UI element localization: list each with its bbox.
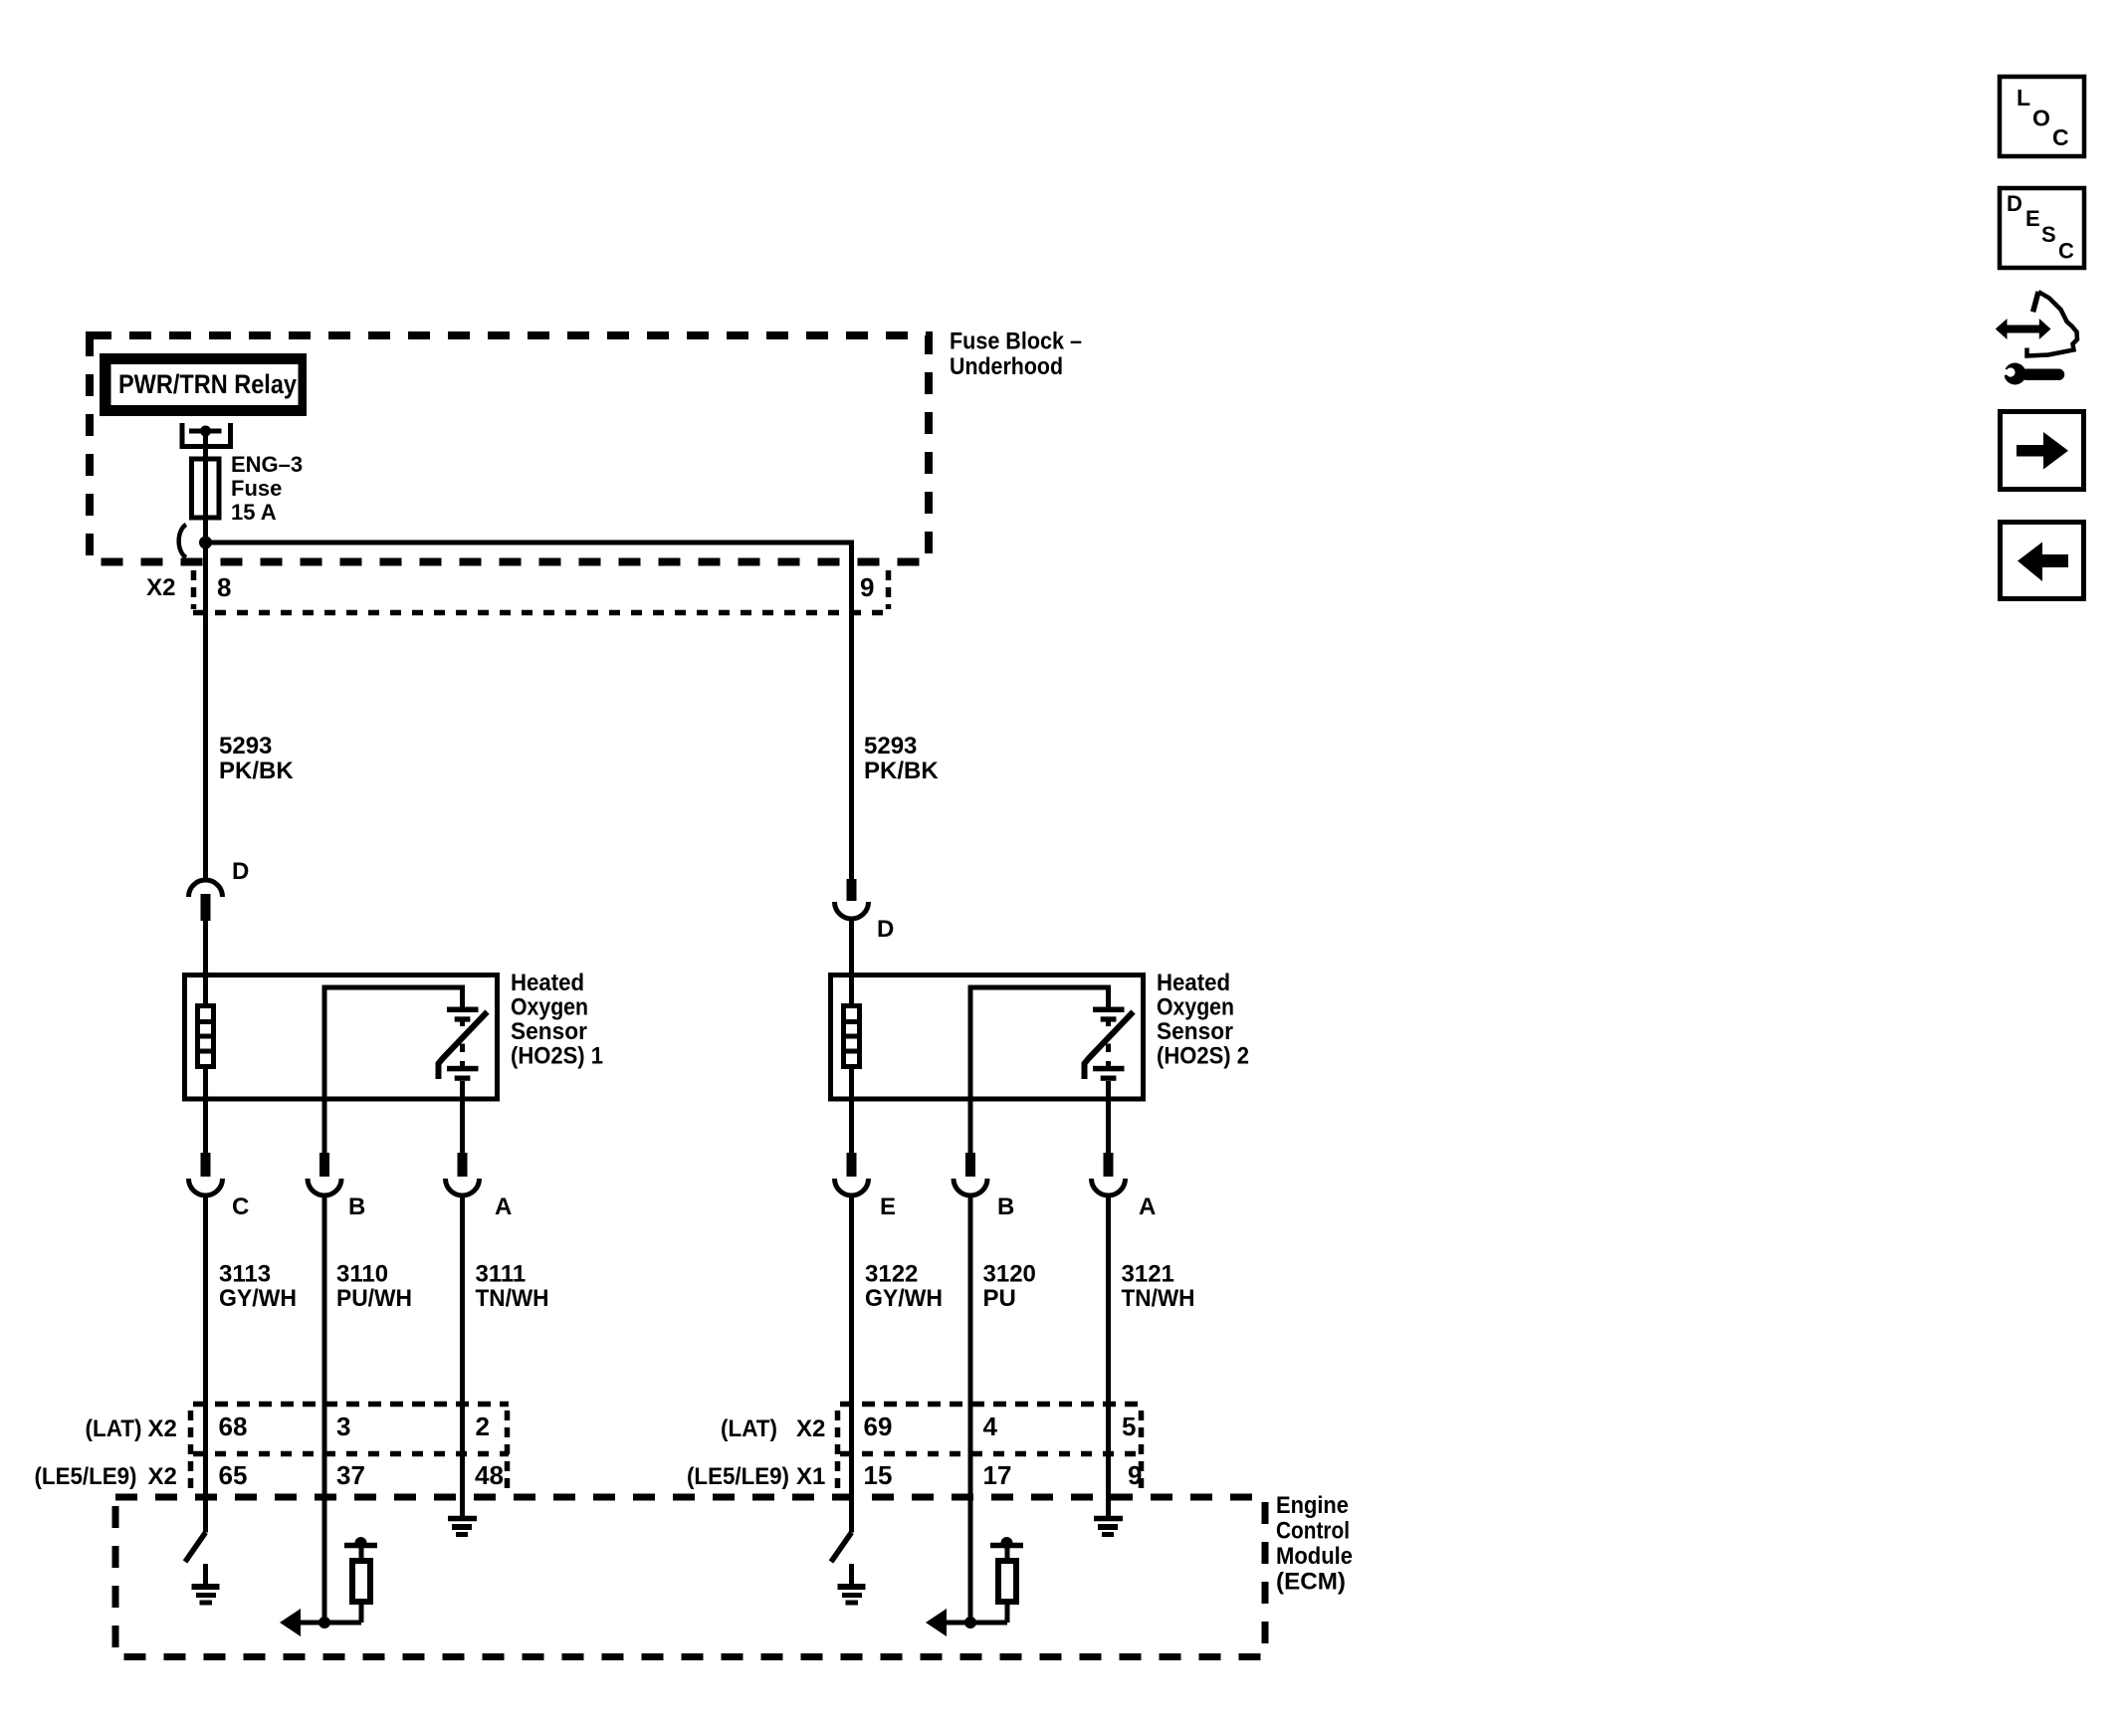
svg-text:3113: 3113 <box>219 1261 271 1288</box>
svg-text:8: 8 <box>217 572 231 602</box>
svg-text:O: O <box>2032 106 2050 131</box>
arrow signal out ECM left <box>280 1609 361 1636</box>
svg-text:(LAT): (LAT) <box>721 1415 777 1442</box>
label (LAT) X2 right <box>721 1415 825 1442</box>
node junction dot below fuse <box>199 537 212 549</box>
ECM dashed box <box>115 1497 1265 1657</box>
svg-text:X1: X1 <box>796 1463 825 1490</box>
wire 3121 TN/WH <box>1106 1195 1111 1518</box>
connector D left (HO2S 1) <box>189 880 223 921</box>
svg-text:Sensor: Sensor <box>1157 1018 1233 1045</box>
label 5293 PK/BK left <box>219 733 294 784</box>
wire internal HO2S 2 sense loop <box>970 987 1109 1099</box>
ground sensor low ref right <box>1094 1519 1123 1535</box>
svg-text:3120: 3120 <box>983 1261 1036 1288</box>
svg-text:17: 17 <box>983 1460 1012 1490</box>
wire sensor output A HO2S 2 <box>1106 1081 1111 1153</box>
svg-text:TN/WH: TN/WH <box>476 1285 549 1312</box>
svg-text:B: B <box>348 1193 365 1220</box>
heater element HO2S 2 <box>844 1006 860 1067</box>
svg-text:5293: 5293 <box>219 733 272 759</box>
svg-text:(ECM): (ECM) <box>1276 1569 1346 1596</box>
svg-text:A: A <box>1139 1193 1156 1220</box>
svg-text:9: 9 <box>1128 1460 1142 1490</box>
svg-text:(LE5/LE9): (LE5/LE9) <box>35 1463 137 1490</box>
wire D right to HO2S2 box <box>849 919 854 1153</box>
label (LE5/LE9) X2 left <box>35 1463 177 1490</box>
svg-text:D: D <box>232 858 249 885</box>
svg-text:65: 65 <box>219 1460 248 1490</box>
svg-text:4: 4 <box>983 1411 998 1441</box>
svg-text:X2: X2 <box>148 1415 177 1442</box>
fuse F ENG-3 15A <box>192 459 220 518</box>
label Fuse Block - Underhood <box>950 328 1082 381</box>
connector pin B HO2S 2 <box>954 1153 987 1195</box>
svg-text:S: S <box>2041 222 2056 247</box>
wire D left to HO2S1 box <box>203 921 208 1153</box>
svg-text:C: C <box>2058 239 2074 264</box>
node junction dot B wire ECM left <box>319 1617 330 1628</box>
svg-text:PK/BK: PK/BK <box>864 758 939 784</box>
sensor cell symbol HO2S 2 <box>1085 1007 1134 1081</box>
svg-text:15: 15 <box>864 1460 893 1490</box>
ground sensor low ref left <box>448 1519 477 1535</box>
svg-text:Control: Control <box>1276 1518 1350 1545</box>
svg-text:B: B <box>997 1193 1014 1220</box>
svg-text:(LE5/LE9): (LE5/LE9) <box>687 1463 789 1490</box>
wire 3110 PU/WH <box>322 1195 327 1623</box>
wire B HO2S 1 box to pin <box>322 1099 327 1153</box>
icon arrow back button <box>2001 523 2084 599</box>
svg-text:E: E <box>880 1193 896 1220</box>
svg-text:PK/BK: PK/BK <box>219 758 294 784</box>
svg-text:Engine: Engine <box>1276 1492 1349 1519</box>
svg-text:Oxygen: Oxygen <box>1157 994 1234 1021</box>
svg-text:D: D <box>877 916 894 943</box>
svg-text:3110: 3110 <box>336 1261 388 1288</box>
svg-text:L: L <box>2017 85 2030 110</box>
svg-text:37: 37 <box>336 1460 365 1490</box>
svg-text:Module: Module <box>1276 1543 1353 1570</box>
svg-text:5: 5 <box>1122 1411 1136 1441</box>
connector clip arc at fuse block exit <box>179 525 186 557</box>
wire 5293 PK/BK left <box>203 542 208 880</box>
svg-text:Sensor: Sensor <box>511 1018 587 1045</box>
connector pin C HO2S 1 <box>189 1153 223 1195</box>
wire 3113 GY/WH <box>203 1195 208 1533</box>
ECM connector row right (LAT) X2 <box>838 1405 1142 1494</box>
svg-text:3: 3 <box>336 1411 350 1441</box>
svg-text:5293: 5293 <box>864 733 917 759</box>
svg-text:15 A: 15 A <box>231 500 277 525</box>
sensor cell symbol HO2S 1 <box>439 1007 488 1081</box>
svg-text:PWR/TRN Relay: PWR/TRN Relay <box>118 369 297 399</box>
svg-text:Underhood: Underhood <box>950 353 1063 380</box>
svg-text:Fuse Block –: Fuse Block – <box>950 328 1082 355</box>
svg-text:9: 9 <box>860 572 874 602</box>
connector pin E HO2S 2 <box>835 1153 869 1195</box>
svg-text:C: C <box>2052 124 2069 150</box>
icon LOC button <box>2000 77 2084 156</box>
svg-text:A: A <box>495 1193 512 1220</box>
svg-text:C: C <box>232 1193 249 1220</box>
svg-text:X2: X2 <box>148 1463 177 1490</box>
wire internal HO2S 1 sense loop <box>324 987 463 1099</box>
wire sensor output A HO2S 1 <box>460 1081 465 1153</box>
relay K PWR/TRN Relay box <box>100 353 307 416</box>
svg-text:(HO2S) 1: (HO2S) 1 <box>511 1043 603 1070</box>
label Heated Oxygen Sensor (HO2S) 2 <box>1157 970 1249 1070</box>
label ENG-3 Fuse 15 A <box>231 452 303 525</box>
svg-text:X2: X2 <box>146 574 175 601</box>
ground ECM right driver <box>838 1564 866 1603</box>
svg-text:X2: X2 <box>796 1415 825 1442</box>
svg-text:PU/WH: PU/WH <box>336 1285 412 1312</box>
arrow signal out ECM right <box>926 1609 1007 1636</box>
connector pin A HO2S 2 <box>1092 1153 1126 1195</box>
svg-text:(LAT): (LAT) <box>86 1415 142 1442</box>
heater element HO2S 1 <box>198 1006 214 1067</box>
label (LAT) X2 left <box>86 1415 177 1442</box>
connector pin B HO2S 1 <box>308 1153 341 1195</box>
wire 3120 PU <box>968 1195 973 1623</box>
svg-text:(HO2S) 2: (HO2S) 2 <box>1157 1043 1249 1070</box>
label (LE5/LE9) X1 right <box>687 1463 825 1490</box>
svg-text:E: E <box>2025 206 2040 231</box>
svg-text:D: D <box>2007 191 2022 216</box>
connector row X2 pins 8 and 9 <box>193 570 891 613</box>
icon DESC button <box>2000 188 2084 268</box>
resistor pull-up ECM right <box>990 1537 1023 1623</box>
svg-text:TN/WH: TN/WH <box>1122 1285 1195 1312</box>
wire 3122 GY/WH <box>849 1195 854 1533</box>
fuse block underhood dashed box <box>90 335 929 562</box>
connector D right (HO2S 2) <box>835 879 869 919</box>
wire relay to fuse to junction <box>203 431 208 545</box>
svg-text:69: 69 <box>864 1411 893 1441</box>
svg-text:68: 68 <box>219 1411 248 1441</box>
ground ECM left driver <box>192 1564 220 1603</box>
connector pin A HO2S 1 <box>446 1153 480 1195</box>
ECM connector row left (LAT) X2 <box>191 1405 510 1494</box>
svg-text:GY/WH: GY/WH <box>219 1285 297 1312</box>
wire horizontal feed to HO2S 2 <box>206 542 852 545</box>
HO2S 2 box <box>831 976 1144 1100</box>
icon car hood with arrow and wrench <box>1995 292 2077 385</box>
wire 3111 TN/WH <box>460 1195 465 1518</box>
svg-text:2: 2 <box>476 1411 490 1441</box>
wire B HO2S 2 box to pin <box>968 1099 973 1153</box>
label Engine Control Module (ECM) <box>1276 1492 1353 1596</box>
node junction dot B wire ECM right <box>964 1617 976 1628</box>
svg-text:3122: 3122 <box>865 1261 918 1288</box>
icon arrow next button <box>2001 412 2084 490</box>
svg-text:Heated: Heated <box>1157 970 1230 996</box>
HO2S 1 box <box>185 976 498 1100</box>
svg-text:Fuse: Fuse <box>231 476 282 501</box>
label 5293 PK/BK right <box>864 733 939 784</box>
switch blade ECM right <box>831 1533 852 1563</box>
wire vertical drop to HO2S 2 connector <box>849 542 854 880</box>
svg-text:3121: 3121 <box>1122 1261 1174 1288</box>
label Heated Oxygen Sensor (HO2S) 1 <box>511 970 603 1070</box>
resistor pull-up ECM left <box>344 1537 377 1623</box>
svg-text:GY/WH: GY/WH <box>865 1285 943 1312</box>
svg-text:PU: PU <box>983 1285 1016 1312</box>
svg-text:Heated: Heated <box>511 970 584 996</box>
svg-text:3111: 3111 <box>476 1261 527 1288</box>
svg-text:48: 48 <box>475 1460 504 1490</box>
relay output pin socket bracket <box>182 423 231 447</box>
svg-text:ENG–3: ENG–3 <box>231 452 303 477</box>
switch blade ECM left <box>185 1533 206 1563</box>
svg-text:Oxygen: Oxygen <box>511 994 588 1021</box>
